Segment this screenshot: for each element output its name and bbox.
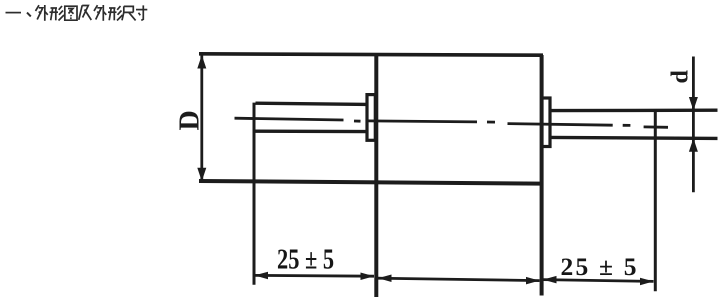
centerline dot B: [354, 120, 361, 123]
right lead top edge (extended right for d dimension): [550, 108, 718, 112]
centerline dash E: [508, 124, 613, 126]
left lead bottom edge: [256, 129, 368, 133]
arrow down (D bottom): [197, 168, 206, 182]
arrow down (d top): [689, 97, 698, 110]
centerline dot F: [623, 124, 631, 127]
middle dimension line: [378, 278, 540, 280]
body right edge (extended down as extension line): [540, 55, 544, 296]
dimension d line: [692, 57, 695, 193]
arrow right (right dim): [640, 278, 654, 286]
arrow left (left dim): [255, 272, 269, 280]
arrow up (D top): [197, 55, 206, 69]
left lead top edge: [256, 103, 368, 104]
arrow left (right dim): [543, 276, 557, 284]
right lead bottom edge (extended right for d dimension): [550, 137, 718, 138]
svg-text:25 ± 5: 25 ± 5: [277, 244, 334, 275]
arrow right (left dim): [361, 273, 375, 281]
title 一、外形图及外形尺寸: [6, 5, 148, 21]
centerline dash G: [644, 126, 668, 129]
right 25±5 dimension line: [543, 280, 654, 282]
body top edge (extended left for D dimension): [199, 54, 543, 55]
svg-text:25 ± 5: 25 ± 5: [561, 252, 639, 281]
svg-text:D: D: [175, 110, 206, 130]
left lead end + extension line: [253, 103, 256, 285]
arrow up (d bottom): [689, 138, 698, 152]
right end cap: [542, 98, 550, 147]
left 25±5 dimension line: [255, 274, 374, 278]
arrow left (middle dim): [378, 275, 392, 283]
centerline dot D: [487, 121, 495, 124]
left end cap: [367, 95, 375, 141]
right lead end + extension line: [654, 110, 657, 291]
svg-text:d: d: [668, 70, 694, 84]
body bottom edge (extended left for D dimension): [199, 181, 542, 184]
dimension D line: [200, 56, 203, 181]
arrow right (middle dim): [526, 277, 540, 285]
centerline dash A: [235, 118, 344, 120]
centerline dash C: [368, 121, 477, 122]
body left edge (extended down as extension line): [374, 55, 378, 298]
